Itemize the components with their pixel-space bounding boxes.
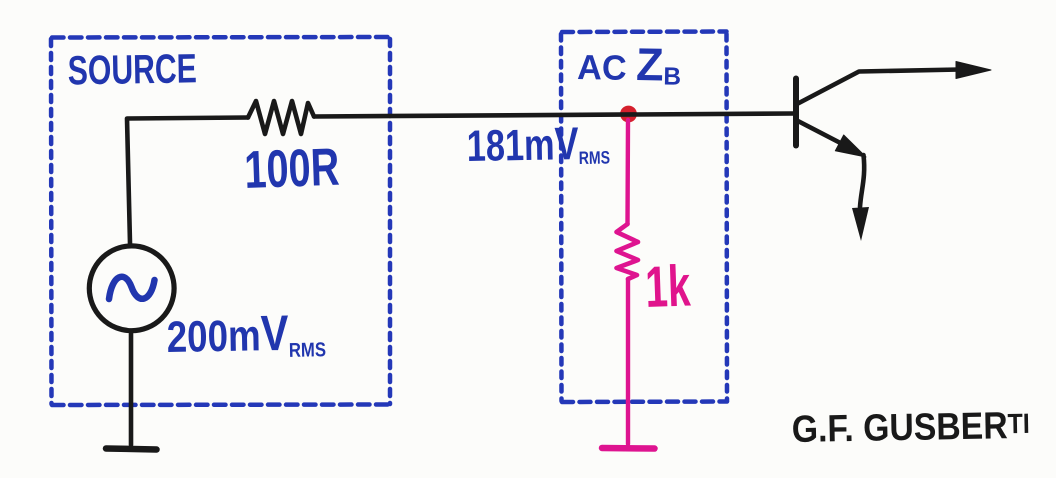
resistor 1k (magenta zigzag) (617, 224, 639, 279)
AC ZB box (dashed) (561, 32, 727, 403)
wire (main run to transistor base) (314, 114, 793, 117)
wire (node to 1k resistor, magenta) (625, 120, 630, 224)
wire (left vertical + top run to resistor) (127, 118, 248, 244)
transistor Q1 collector with arrow (797, 62, 991, 105)
svg-text:SOURCE: SOURCE (67, 45, 197, 93)
resistor R1 100R (248, 101, 314, 134)
node B (red junction dot) (620, 106, 637, 123)
wire (1k to magenta ground) (626, 279, 630, 444)
wire (source bottom to ground) (129, 331, 134, 445)
label SOURCE (67, 45, 197, 93)
arrow (emitter output, down) (852, 207, 869, 241)
value 200mVrms (166, 304, 326, 364)
label 100R (243, 138, 340, 200)
transistor Q1 base bar (793, 79, 799, 146)
label AC ZB (577, 37, 682, 91)
sine symbol inside source (109, 277, 155, 299)
ground (magenta) (602, 445, 655, 452)
source box (dashed) (51, 37, 390, 405)
transistor Q1 emitter with arrow (797, 121, 866, 158)
svg-text:100R: 100R (243, 138, 340, 200)
ground (black) (106, 449, 157, 450)
label 1k (644, 253, 692, 320)
svg-text:1k: 1k (644, 253, 692, 320)
wire (emitter output down) (860, 155, 864, 207)
svg-text:G.F. GUSBERTI: G.F. GUSBERTI (791, 405, 1030, 451)
source V1 (AC source circle) (89, 246, 174, 331)
signature G.F. GUSBERTI (791, 405, 1030, 451)
label 181mVrms (466, 117, 610, 171)
